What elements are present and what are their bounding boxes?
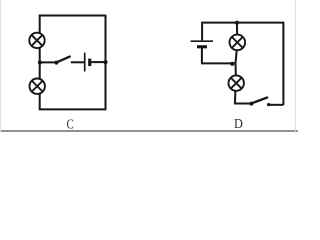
wire: D middle vertical, top dot to lamp L3 [236, 23, 238, 35]
lamp L3 (circle with X, upper middle branch of D) [230, 35, 246, 51]
wire: C left vertical lower (lamp L2 to bottom wire) [39, 93, 41, 109]
wire: C right vertical [105, 15, 107, 110]
wire: D bottom horizontal, corner to switch [234, 103, 251, 105]
wire: C middle horizontal, junction to switch [40, 61, 57, 63]
wire: D left vertical (top wire down to battery) [201, 22, 203, 41]
wire: C left vertical between lamp L1 and middle junction [39, 47, 41, 62]
right faint page border [294, 0, 296, 133]
battery B2 long plate (positive, horizontal) [191, 40, 213, 42]
bottom grey rule [0, 130, 298, 132]
wire: D horizontal battery-bottom to middle branch [201, 62, 235, 64]
lamp L2 (circle with X, lower left branch of C) [30, 79, 45, 94]
battery B1 long plate (positive) [84, 53, 86, 72]
node: junction dot where battery-bottom wire meets middle branch of D [230, 62, 234, 66]
wire: D middle vertical, lamp L4 to bottom corner [234, 91, 237, 104]
wire: C middle horizontal, switch to battery [71, 61, 84, 63]
wire: D middle vertical, lamp L3 to junction [236, 50, 237, 63]
wire: C left vertical between middle junction and lamp L2 [39, 63, 41, 80]
wire: D middle vertical, junction to lamp L4 [235, 63, 237, 75]
svg-text:C: C [67, 116, 74, 132]
wire: C left vertical upper (top wire to lamp L1) [39, 15, 41, 34]
switch S2 lever (open, bottom wire of D) [251, 98, 267, 104]
node: junction dot left middle of C [38, 60, 42, 64]
switch S1 lever (open, middle wire of C) [56, 57, 69, 63]
wire: C middle horizontal, battery to right wire [91, 61, 106, 63]
node: switch S2 right terminal nub [267, 103, 270, 106]
left faint page border [0, 0, 2, 133]
wire: D top horizontal [202, 22, 283, 24]
node: switch S1 left terminal dot [54, 61, 58, 65]
node: junction dot right middle of C [103, 60, 107, 64]
wire: C top horizontal [39, 15, 106, 17]
node: switch S2 left terminal dot [249, 102, 253, 106]
wire: D bottom horizontal, switch to right corner [268, 104, 283, 106]
battery B1 short thick plate (negative) [88, 59, 91, 67]
lamp L4 (circle with X, lower middle branch of D) [229, 75, 244, 90]
wire: D right vertical [282, 22, 284, 105]
svg-text:D: D [234, 115, 243, 131]
wire: C bottom horizontal [39, 108, 107, 110]
lamp L1 (circle with X, upper left branch of C) [29, 33, 44, 48]
battery B2 short thick plate (negative, horizontal) [197, 45, 207, 48]
wire: D left vertical below battery down to corner [201, 48, 203, 64]
node: junction dot on D top wire [235, 21, 239, 25]
